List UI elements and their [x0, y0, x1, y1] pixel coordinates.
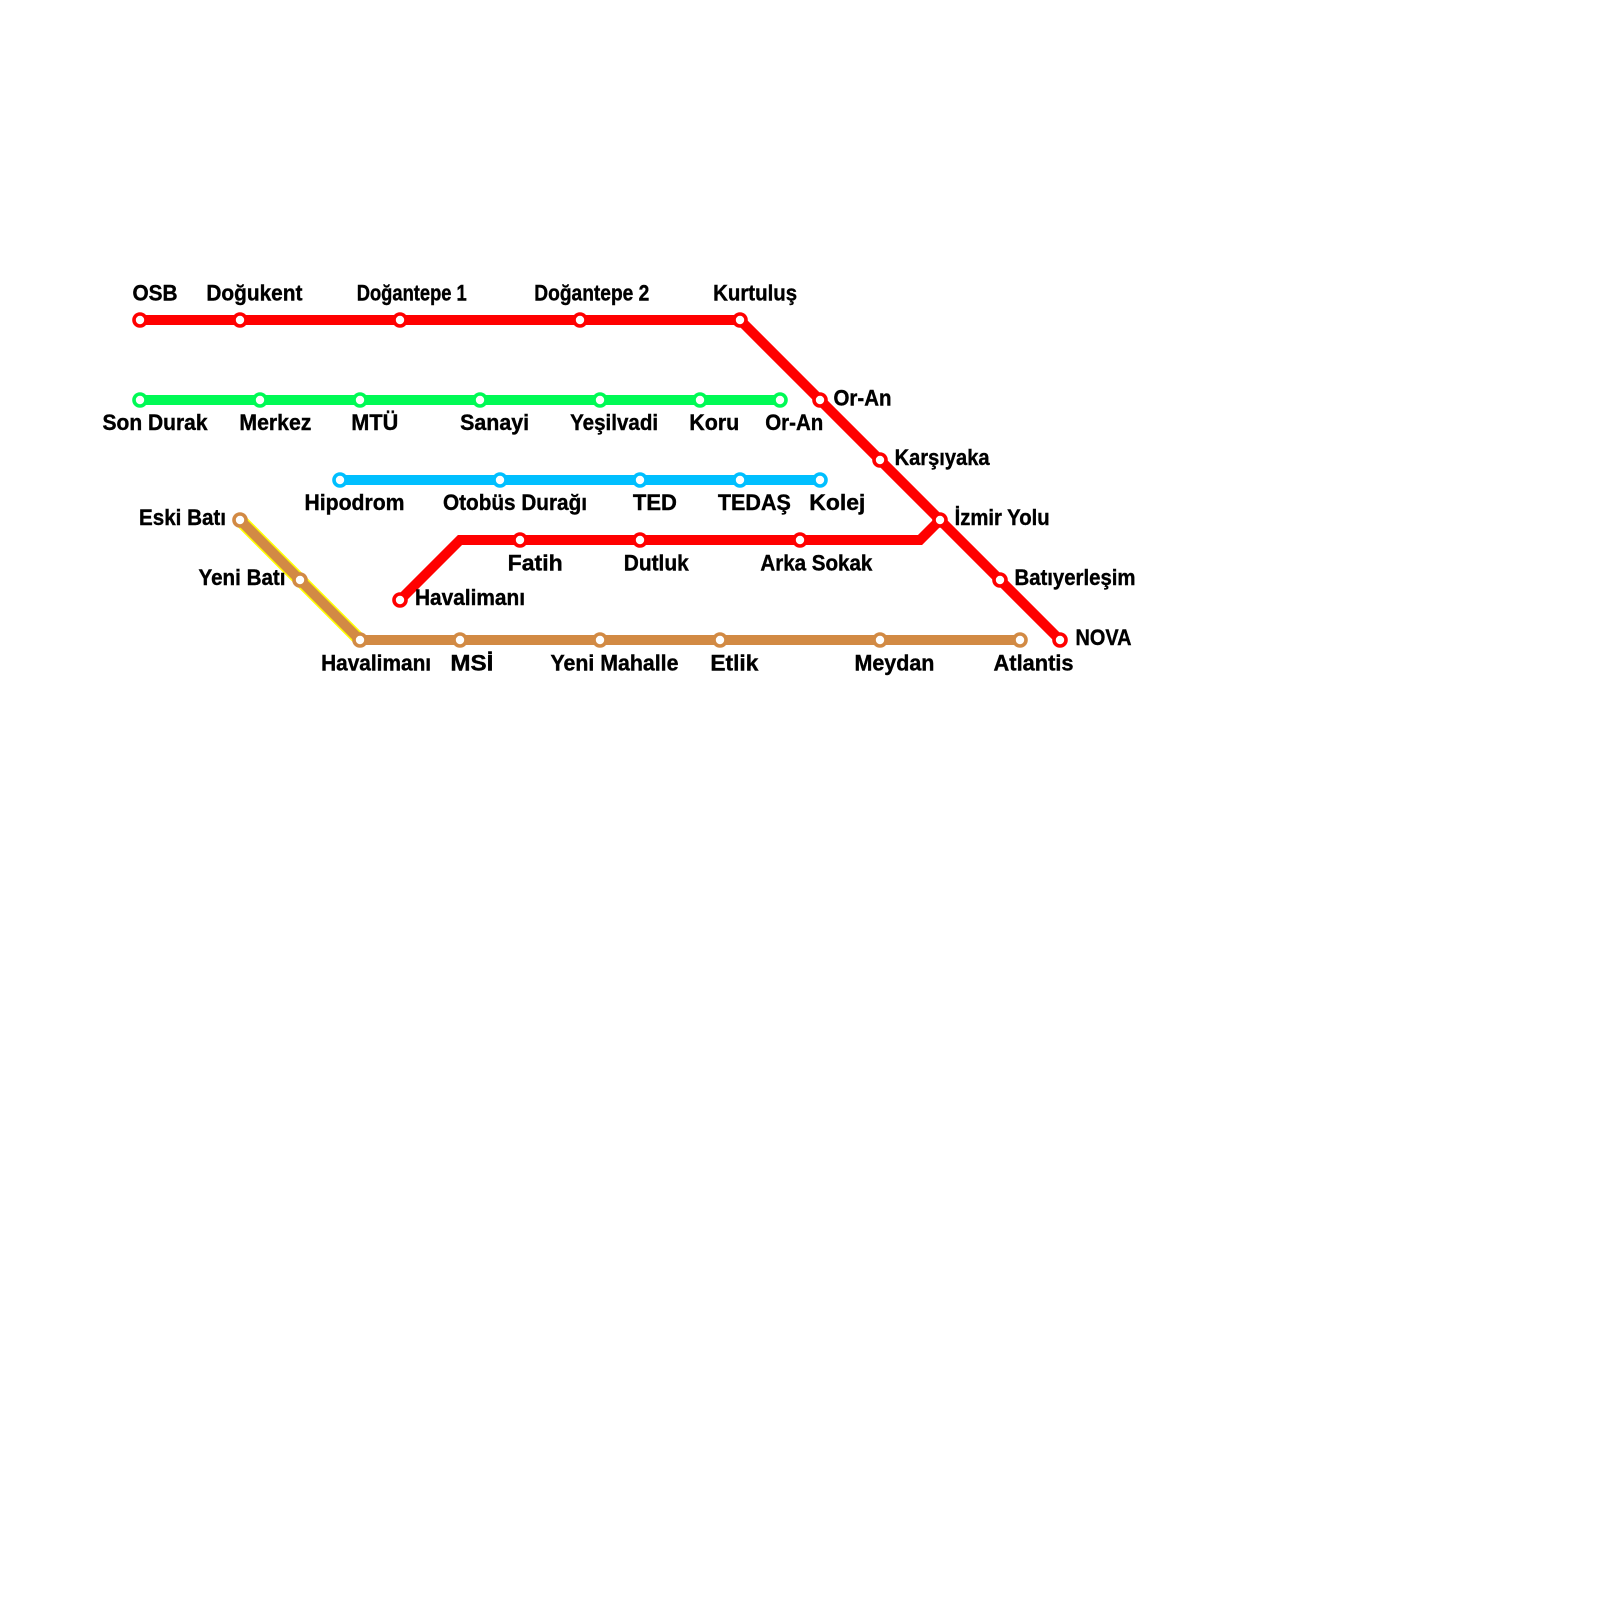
green line Son Durak-Or-An	[140, 395, 780, 405]
station Arka Sokak	[794, 534, 806, 546]
station Dogantepe 2	[574, 314, 586, 326]
svg-text:TED: TED	[633, 490, 677, 515]
station NOVA	[1054, 634, 1066, 646]
station Yeni Mahalle	[594, 634, 606, 646]
svg-text:Kurtuluş: Kurtuluş	[713, 281, 797, 306]
svg-text:Or-An: Or-An	[765, 410, 823, 435]
svg-text:Etlik: Etlik	[710, 651, 758, 676]
station Yesilvadi	[594, 394, 606, 406]
station OSB	[134, 314, 146, 326]
stations red top	[134, 314, 1066, 646]
svg-text:Hipodrom: Hipodrom	[305, 490, 405, 515]
svg-text:Doğantepe 1: Doğantepe 1	[357, 281, 467, 306]
svg-text:Or-An: Or-An	[834, 386, 892, 411]
red line 1 OSB-NOVA	[140, 320, 1060, 640]
svg-text:Kolej: Kolej	[809, 490, 865, 515]
svg-text:Arka Sokak: Arka Sokak	[760, 551, 872, 576]
station Dogukent	[234, 314, 246, 326]
station Otobus Duragi	[494, 474, 506, 486]
red line 2 Havalimani branch	[400, 520, 940, 600]
station Kurtulus	[734, 314, 746, 326]
orange line Eski Bati-Atlantis	[240, 520, 1020, 640]
stations green	[134, 394, 786, 406]
stations blue	[334, 474, 826, 486]
svg-text:Merkez: Merkez	[239, 410, 311, 435]
station Etlik	[714, 634, 726, 646]
svg-text:Fatih: Fatih	[508, 551, 563, 576]
svg-text:Batıyerleşim: Batıyerleşim	[1015, 565, 1136, 590]
svg-text:Yeni Mahalle: Yeni Mahalle	[550, 651, 678, 676]
svg-text:Doğukent: Doğukent	[206, 281, 302, 306]
station Meydan	[874, 634, 886, 646]
svg-text:Havalimanı: Havalimanı	[415, 585, 525, 610]
svg-text:Yeşilvadi: Yeşilvadi	[570, 410, 658, 435]
station Havalimani red	[394, 594, 406, 606]
station Fatih	[514, 534, 526, 546]
svg-text:Yeni Batı: Yeni Batı	[199, 565, 286, 590]
svg-text:OSB: OSB	[133, 281, 178, 306]
station MSI	[454, 634, 466, 646]
svg-text:Atlantis: Atlantis	[994, 651, 1074, 676]
svg-text:İzmir Yolu: İzmir Yolu	[955, 505, 1050, 530]
station Son Durak	[134, 394, 146, 406]
labels red branch	[508, 551, 873, 576]
station Or-An red	[814, 394, 826, 406]
yellow line Eski Bati-Havalimani	[240, 520, 360, 640]
station Eski Bati	[234, 514, 246, 526]
svg-text:NOVA: NOVA	[1076, 625, 1132, 650]
station TED	[634, 474, 646, 486]
station Havalimani orange	[354, 634, 366, 646]
svg-text:TEDAŞ: TEDAŞ	[718, 490, 791, 515]
station Or-An green	[774, 394, 786, 406]
labels red diagonal	[834, 386, 1136, 651]
station Dogantepe 1	[394, 314, 406, 326]
svg-text:Dutluk: Dutluk	[624, 551, 689, 576]
svg-text:Meydan: Meydan	[854, 651, 934, 676]
station Dutluk	[634, 534, 646, 546]
labels red top line	[133, 281, 798, 306]
labels orange line	[321, 651, 1073, 676]
svg-text:Karşıyaka: Karşıyaka	[895, 445, 990, 470]
station Hipodrom	[334, 474, 346, 486]
station Sanayi	[474, 394, 486, 406]
station TEDAS	[734, 474, 746, 486]
svg-text:MTÜ: MTÜ	[351, 410, 398, 435]
station Yeni Bati	[294, 574, 306, 586]
station Koru	[694, 394, 706, 406]
station Izmir Yolu	[934, 514, 946, 526]
station Kolej	[814, 474, 826, 486]
svg-text:Otobüs Durağı: Otobüs Durağı	[443, 490, 587, 515]
labels west (right-anchored)	[139, 505, 286, 590]
station MTU	[354, 394, 366, 406]
svg-text:Koru: Koru	[689, 410, 739, 435]
labels green line	[103, 410, 824, 435]
station Merkez	[254, 394, 266, 406]
labels blue line	[305, 490, 866, 515]
svg-text:MSİ: MSİ	[450, 651, 493, 676]
svg-text:Doğantepe 2: Doğantepe 2	[534, 281, 649, 306]
station Karsiyaka	[874, 454, 886, 466]
station Atlantis	[1014, 634, 1026, 646]
svg-text:Son Durak: Son Durak	[103, 410, 208, 435]
svg-text:Eski Batı: Eski Batı	[139, 505, 226, 530]
station Batiyerlesim	[994, 574, 1006, 586]
blue line Hipodrom-Kolej	[340, 475, 820, 485]
stations orange	[234, 514, 1026, 646]
svg-text:Sanayi: Sanayi	[460, 410, 529, 435]
svg-text:Havalimanı: Havalimanı	[321, 651, 431, 676]
